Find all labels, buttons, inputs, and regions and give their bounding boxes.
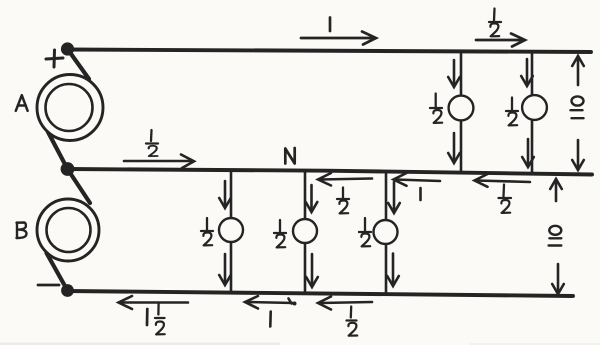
wire lamp drop bottom-section second <box>304 171 307 293</box>
wire positive top line <box>67 50 591 53</box>
arrow down above lamp L4 <box>306 185 318 212</box>
lamp L4 <box>293 219 317 243</box>
label one-half lamp L4 <box>274 220 286 233</box>
arrow down below lamp L4 <box>306 254 318 287</box>
arrow down above lamp L3 <box>219 181 231 208</box>
arrow up 110 top section <box>572 56 584 85</box>
generator A <box>37 75 103 141</box>
arrow down above lamp L2 <box>521 59 533 86</box>
wire generator A bottom lead <box>48 132 68 169</box>
label one-half below bottom wire third <box>347 307 357 321</box>
label one-half below neutral first <box>337 188 349 200</box>
lamp L3 <box>219 218 243 242</box>
label one-half lamp L3 <box>201 218 213 231</box>
arrow down 110 top section <box>572 140 584 170</box>
generator B <box>37 199 99 261</box>
label A <box>16 95 28 111</box>
wire generator A top lead <box>68 49 90 79</box>
wire lamp drop bottom-section first <box>230 171 233 292</box>
wire generator B bottom lead <box>47 253 68 291</box>
arrow up 110 bottom section <box>550 179 562 201</box>
arrow left below bottom wire first <box>119 296 189 309</box>
label 1-1/2 below bottom wire <box>146 309 149 325</box>
label one-half lamp L2 <box>506 98 518 112</box>
label one-half below neutral third <box>499 185 512 199</box>
arrow down 110 bottom section <box>552 264 564 294</box>
label one-half above top wire right <box>489 9 501 23</box>
arrow down below lamp L5 <box>387 254 399 287</box>
arrow current half on top wire right <box>476 34 525 47</box>
arrow left below bottom wire third <box>318 297 372 310</box>
label one-half above neutral left <box>146 130 158 144</box>
wire neutral middle line <box>67 169 592 175</box>
label 1 below neutral second <box>419 188 422 200</box>
wire lamp drop bottom-section third <box>385 172 388 294</box>
arrow left below neutral third <box>475 174 531 187</box>
label one-half lamp L1 <box>430 94 442 109</box>
arrow down below lamp L3 <box>219 254 231 285</box>
label minus sign <box>38 284 59 287</box>
label 1 below bottom wire <box>269 312 272 327</box>
lamp L1 <box>449 96 474 121</box>
label one-half lamp L5 <box>359 218 371 232</box>
wire negative bottom line <box>67 291 573 296</box>
wire generator B top lead <box>68 169 91 203</box>
arrow left below bottom wire second <box>245 296 297 309</box>
arrow current 1 on top wire <box>301 32 376 45</box>
label B <box>17 223 27 239</box>
arrow down above lamp L1 <box>448 60 460 87</box>
label N <box>285 148 294 164</box>
node top terminal dot <box>61 42 74 55</box>
arrow left below neutral second <box>394 173 441 186</box>
label plus sign <box>46 50 63 67</box>
wire lamp drop top-section second <box>531 51 534 173</box>
label 110 bottom section <box>549 226 562 246</box>
arrow down below lamp L2 <box>522 139 534 167</box>
lamp L2 <box>522 95 547 120</box>
arrow left below neutral first <box>318 173 372 186</box>
arrow down below lamp L1 <box>448 133 460 163</box>
label 110 top section <box>571 96 584 118</box>
label 1 above top wire <box>329 18 332 32</box>
node neutral terminal dot <box>61 162 75 176</box>
node bottom terminal dot <box>61 284 74 297</box>
arrow current half above neutral left <box>124 155 194 169</box>
lamp L5 <box>374 220 398 244</box>
arrow down above lamp L5 <box>388 182 400 213</box>
wire lamp drop top-section first <box>460 51 463 172</box>
